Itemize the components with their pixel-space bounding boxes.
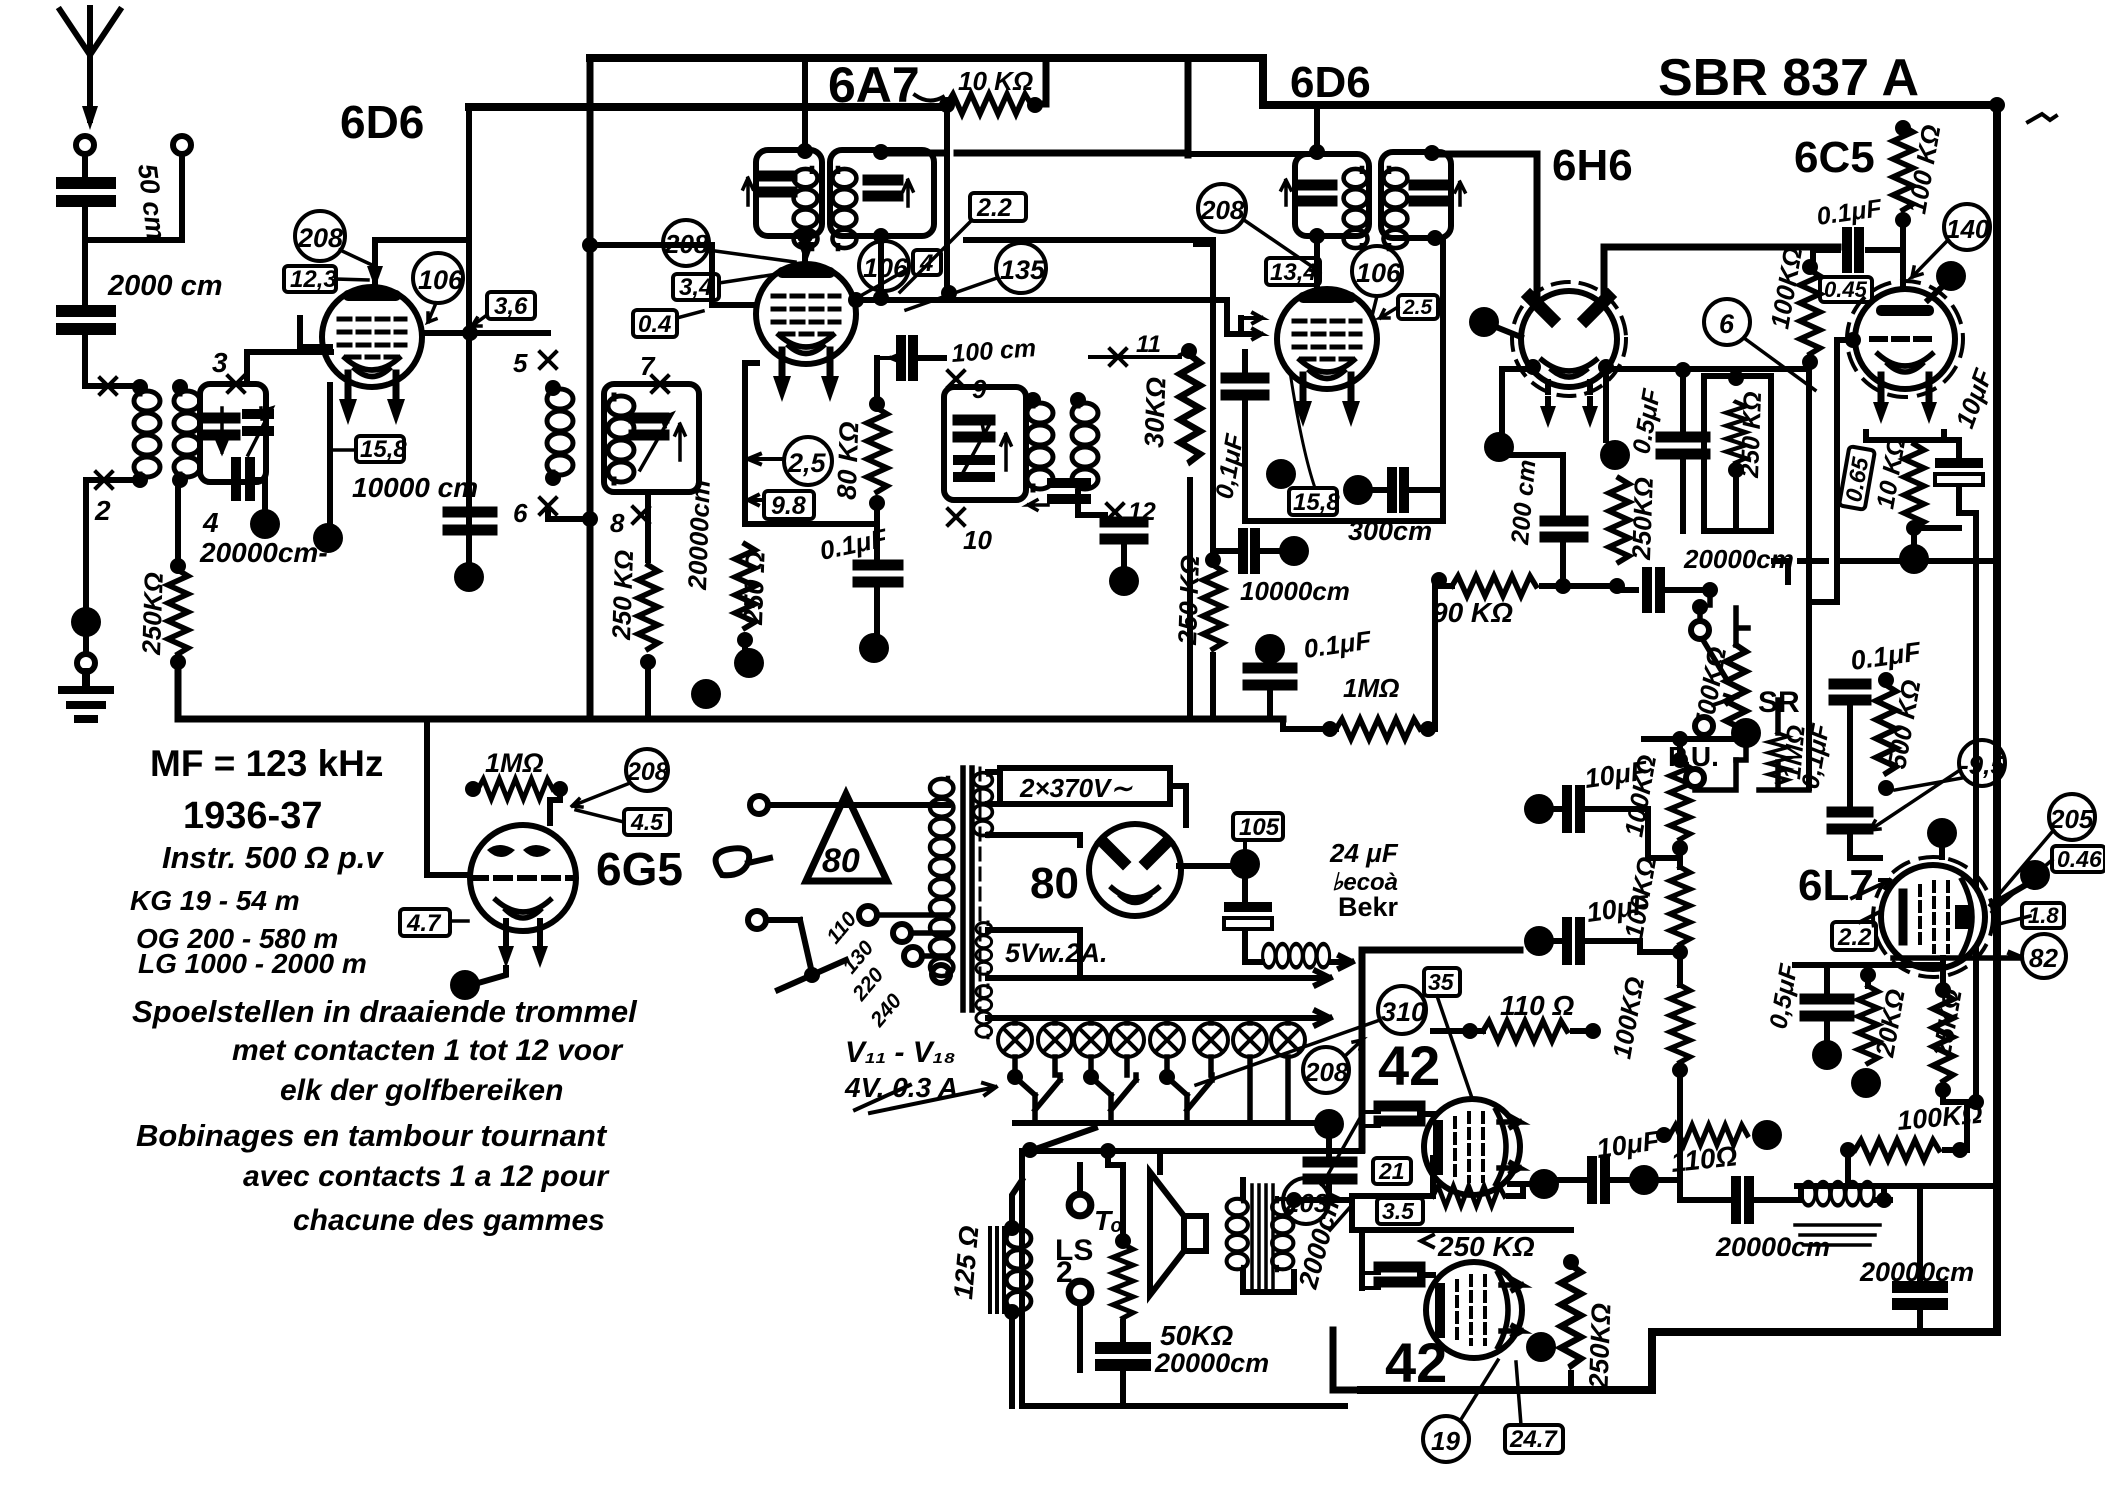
- svg-text:310: 310: [1381, 997, 1426, 1027]
- contact X2: [96, 472, 112, 488]
- svg-text:2×370V∼: 2×370V∼: [1019, 773, 1133, 803]
- pointer: [1460, 1360, 1498, 1421]
- 0.1uF cap lower: [1832, 812, 1868, 829]
- svg-text:20000cm: 20000cm: [1154, 1348, 1269, 1378]
- svg-text:20000cm: 20000cm: [1715, 1232, 1830, 1262]
- node: [640, 654, 656, 670]
- capacitor 0.1uF: [858, 565, 898, 582]
- junction blob: [1899, 544, 1929, 574]
- pointer: [330, 448, 356, 452]
- node: [545, 470, 561, 486]
- cathode arrows already in tube; cathode left wire: [742, 363, 748, 524]
- svg-text:chacune des gammes: chacune des gammes: [293, 1204, 605, 1237]
- pilot lamps: [998, 1023, 1032, 1057]
- AVC resistor 250K wire: [175, 480, 181, 565]
- cap: [634, 418, 664, 435]
- squiggle: [915, 95, 943, 101]
- svg-text:24.7: 24.7: [1509, 1426, 1558, 1453]
- resistor 100KOhm b: [1670, 867, 1690, 944]
- boxed 105: [1233, 813, 1283, 841]
- resistor 1MOhm vertical: [1768, 733, 1788, 783]
- heater lines: [988, 930, 1330, 985]
- svg-text:6L7: 6L7: [1798, 861, 1874, 910]
- svg-text:82: 82: [2029, 943, 2058, 973]
- grid cap wire: [375, 240, 469, 290]
- svg-text:6H6: 6H6: [1552, 141, 1633, 190]
- secondary 4V coil: [976, 985, 992, 1038]
- junction blob: [1266, 459, 1296, 489]
- trimmer arrow: [640, 414, 672, 470]
- plate wire right: [1604, 247, 1838, 300]
- coil 20000cm: [1802, 1182, 1874, 1205]
- node: [848, 292, 864, 308]
- svg-text:6D6: 6D6: [340, 96, 424, 148]
- wire: [645, 492, 651, 560]
- wires around pot: [1736, 608, 1748, 645]
- core: [963, 768, 972, 1010]
- svg-text:3.5: 3.5: [1382, 1198, 1415, 1224]
- svg-text:5: 5: [513, 348, 528, 378]
- antenna coil L2: [174, 390, 200, 478]
- boxed 15,8: [356, 436, 407, 463]
- boxed 4.7: [400, 909, 450, 937]
- left loop: [1022, 1151, 1345, 1406]
- node: [172, 472, 188, 488]
- node: [1181, 343, 1197, 359]
- cap 10000cm: [1213, 548, 1237, 554]
- box with 250K: [1704, 376, 1771, 531]
- circled 208: [1303, 1047, 1349, 1093]
- wire: [1078, 492, 1105, 515]
- cap: [1300, 185, 1332, 201]
- resistor 1MOhm: [465, 781, 481, 797]
- junction blob: [1230, 849, 1260, 879]
- node: [462, 325, 478, 341]
- circled 205: [2049, 794, 2095, 840]
- switch: [1692, 599, 1708, 615]
- resistor 250KOhm in box: [1726, 402, 1746, 462]
- svg-text:250 KΩ: 250 KΩ: [1172, 555, 1205, 647]
- cap 20000cm: [1120, 1322, 1126, 1342]
- boxed 0,4: [633, 310, 677, 338]
- right border: [1993, 105, 2001, 1324]
- svg-text:42: 42: [1385, 1331, 1447, 1394]
- svg-text:6G5: 6G5: [596, 843, 683, 895]
- cap below coil: [1052, 483, 1086, 499]
- svg-text:135: 135: [1000, 255, 1046, 285]
- svg-text:205: 205: [2049, 804, 2094, 834]
- arrow: [1281, 180, 1291, 205]
- arrow up: [1001, 434, 1011, 470]
- AVC dashed line to right: [1800, 558, 1862, 564]
- node: [1070, 392, 1086, 408]
- junction blob: [313, 523, 343, 553]
- circled 6: [1704, 299, 1750, 345]
- junction blob: [1279, 536, 1309, 566]
- contact X6: [540, 498, 556, 514]
- osc box right: [830, 150, 934, 236]
- lamp top leads: [1015, 1018, 1288, 1023]
- wire: [1542, 583, 1619, 589]
- svg-text:1936-37: 1936-37: [183, 795, 322, 837]
- wire: [874, 588, 880, 632]
- wire: [82, 154, 88, 177]
- IF box left: [1295, 154, 1369, 236]
- svg-text:80: 80: [1030, 859, 1079, 908]
- svg-text:2000 cm: 2000 cm: [107, 270, 223, 302]
- elbow: [1774, 561, 1788, 582]
- lamp chain: [1015, 1057, 1288, 1123]
- grid blob: [1927, 818, 1957, 848]
- 90K line: [1435, 583, 1452, 589]
- resistor 250K below 6H6: [1609, 478, 1629, 562]
- switch lever: [778, 960, 846, 990]
- boxed 2.2: [1832, 922, 1876, 951]
- screen box left wire: [1196, 241, 1213, 247]
- grid arrows into tube: [1241, 313, 1262, 339]
- wire right box bottom to plate line: [878, 236, 884, 300]
- grid blob: [1936, 261, 1966, 291]
- 10uF cap no2: [1524, 926, 1554, 956]
- wire top: [802, 58, 808, 151]
- terminal: [77, 654, 95, 672]
- svg-text:6: 6: [513, 498, 528, 528]
- wire grid jog: [550, 789, 560, 823]
- circled 19: [1423, 1416, 1469, 1462]
- svg-text:Tₒ: Tₒ: [1094, 1205, 1123, 1236]
- osc coil B: [1072, 402, 1098, 490]
- cathode network: [1866, 432, 1959, 440]
- tube 6H6: [1512, 282, 1626, 428]
- pot 500K: [1726, 645, 1746, 737]
- contact X12: [1107, 504, 1123, 520]
- svg-text:3,6: 3,6: [494, 293, 528, 320]
- resistor 110 Ohm low: [1656, 1127, 1672, 1143]
- AVC line: [966, 240, 1213, 560]
- svg-text:12,3: 12,3: [290, 266, 337, 293]
- line: [1022, 1148, 1362, 1154]
- node: [873, 144, 889, 160]
- pointers: [1990, 832, 2052, 925]
- svg-text:140: 140: [1946, 214, 1990, 244]
- circled 140: [1944, 204, 1990, 250]
- arrow left: [1028, 500, 1048, 510]
- arrow: [855, 1083, 996, 1113]
- svg-text:10000 cm: 10000 cm: [352, 472, 478, 503]
- boxed 21: [1373, 1158, 1411, 1184]
- arrow: [903, 180, 913, 206]
- svg-text:10: 10: [963, 525, 992, 555]
- svg-text:35: 35: [1428, 969, 1455, 995]
- grid hook wire: [247, 318, 331, 381]
- tube 42 no2: [1426, 1262, 1522, 1358]
- boxed 13,4: [1266, 258, 1320, 286]
- circled 208: [1198, 184, 1246, 232]
- elco 24uF: [1242, 878, 1248, 900]
- circled 135: [996, 243, 1046, 293]
- boxed 9.8: [764, 491, 814, 520]
- boxed 2.2: [970, 193, 1026, 222]
- bottom network line: [1797, 1183, 1997, 1189]
- node: [170, 558, 186, 574]
- choke: [1245, 932, 1262, 962]
- svg-text:3,4: 3,4: [679, 274, 712, 301]
- svg-text:90 KΩ: 90 KΩ: [1432, 597, 1513, 628]
- svg-text:1MΩ: 1MΩ: [1343, 673, 1399, 703]
- trimmer capacitor: [205, 418, 235, 435]
- pointer with arrow: [748, 454, 784, 464]
- svg-text:6D6: 6D6: [1290, 58, 1371, 107]
- screen feed vertical: [1185, 58, 1192, 155]
- tube 6C5: [1847, 281, 1963, 424]
- antenna symbol: [60, 8, 120, 130]
- boxed 4.5: [624, 809, 670, 835]
- output transformer: [1227, 1198, 1248, 1270]
- svg-text:250 Ω: 250 Ω: [738, 551, 771, 627]
- node: [941, 285, 957, 301]
- boxed 12,3: [284, 266, 337, 293]
- contact X3: [228, 376, 244, 392]
- svg-text:0.4: 0.4: [638, 311, 671, 338]
- boxed 15,8: [1289, 488, 1340, 516]
- wire grid: [1314, 236, 1320, 292]
- wire to bottom bus: [178, 660, 1283, 719]
- cathode bottom loop: [745, 503, 877, 558]
- svg-text:300cm: 300cm: [1348, 516, 1432, 546]
- ground: [62, 672, 110, 719]
- boxed 0.45: [2052, 846, 2105, 872]
- plate line 6A7: [856, 300, 1258, 334]
- capacitor 50cm: [62, 183, 110, 201]
- svg-text:2,5: 2,5: [787, 448, 827, 478]
- wire: [742, 640, 748, 655]
- svg-text:250KΩ: 250KΩ: [136, 572, 169, 656]
- capacitor below box: [236, 462, 250, 496]
- svg-text:11: 11: [1136, 331, 1161, 358]
- svg-text:30KΩ: 30KΩ: [1139, 377, 1171, 449]
- wire: [548, 512, 588, 519]
- capacitor on AVC line: [448, 512, 492, 530]
- node: [1427, 230, 1443, 246]
- junction blob: [454, 562, 484, 592]
- tube 6G5: [470, 825, 576, 968]
- node: [172, 379, 188, 395]
- junction blob: [734, 648, 764, 678]
- wire: [1035, 58, 1046, 104]
- 100K resistor column: [1644, 736, 1732, 742]
- pointer: [428, 303, 436, 322]
- pointer: [472, 315, 487, 326]
- top link: [1795, 962, 1943, 968]
- node: [1205, 552, 1221, 568]
- label 250KOhm arrow: [1421, 1235, 1433, 1247]
- resistor 30KOhm: [1180, 355, 1200, 462]
- tube 42 no1: [1424, 1099, 1520, 1195]
- svg-text:KG 19 - 54 m: KG 19 - 54 m: [130, 885, 300, 916]
- svg-text:15,8: 15,8: [1293, 489, 1340, 516]
- svg-text:4.5: 4.5: [630, 809, 664, 835]
- svg-text:V₁₁ - V₁₈: V₁₁ - V₁₈: [845, 1036, 956, 1069]
- circled 2,5: [784, 437, 832, 485]
- tube GL7: [1873, 857, 1993, 977]
- node: [1309, 228, 1325, 244]
- bottom bus amp: [1361, 1332, 1997, 1390]
- svg-text:110 Ω: 110 Ω: [1500, 990, 1574, 1021]
- circled 310: [1378, 986, 1426, 1034]
- boxed 3,4: [673, 274, 719, 301]
- svg-text:42: 42: [1378, 1034, 1440, 1097]
- junction blob: [71, 607, 101, 637]
- boxed 0.65 rotated: [1839, 446, 1875, 510]
- boxed 0.45 top: [1820, 277, 1872, 302]
- cap in right box: [868, 180, 898, 196]
- 80K resistor top wire: [874, 358, 880, 404]
- tube 6D6 V1: [322, 287, 422, 425]
- svg-text:6: 6: [1719, 309, 1735, 339]
- 10uF cap no3: [1556, 1177, 1585, 1183]
- check mark top right: [2028, 114, 2056, 122]
- band switch box 2: [944, 387, 1026, 500]
- wire: [1504, 369, 1606, 515]
- coil: [1344, 168, 1368, 249]
- mains taps: [859, 906, 877, 924]
- arrow: [743, 178, 753, 205]
- node: [1025, 392, 1041, 408]
- wire: [85, 154, 182, 240]
- wire right box to screen line: [878, 152, 884, 153]
- circled 82: [2022, 934, 2066, 978]
- junction blob: [1109, 566, 1139, 596]
- node: [797, 143, 813, 159]
- boxed 1.8: [2022, 903, 2064, 928]
- resistor 250KOhm: [168, 570, 188, 654]
- boxed 24.7: [1505, 1425, 1563, 1453]
- svg-text:208: 208: [1304, 1057, 1349, 1087]
- svg-text:250 KΩ: 250 KΩ: [606, 550, 639, 642]
- 0.5uF cap: [1675, 362, 1691, 378]
- 10uF cap no1: [1524, 794, 1554, 824]
- svg-text:10000cm: 10000cm: [1240, 576, 1350, 606]
- primary wires: [768, 805, 948, 920]
- circled 106: [859, 241, 909, 291]
- B+ bus left section: [469, 103, 947, 111]
- junction blob: [1314, 1109, 1344, 1139]
- node: [132, 379, 148, 395]
- pointer: [1744, 338, 1815, 390]
- pointer: [1244, 220, 1320, 272]
- node: [873, 290, 889, 306]
- resistor 80KOhm: [867, 408, 887, 492]
- node: [132, 472, 148, 488]
- trimmer cap: [958, 420, 990, 437]
- cap 0.1uF: [1813, 247, 1903, 253]
- fuse curve: [716, 848, 770, 875]
- svg-text:208: 208: [664, 229, 709, 259]
- node: [869, 495, 885, 511]
- svg-text:21: 21: [1378, 1158, 1405, 1184]
- junction blob: [1600, 440, 1630, 470]
- svg-text:Bobinages en tambour tournant: Bobinages en tambour tournant: [136, 1118, 608, 1153]
- svg-text:Bekr: Bekr: [1338, 892, 1399, 922]
- primary coil: [930, 778, 953, 877]
- top right blob: [2020, 860, 2050, 890]
- tube 6D6 V2: [1277, 289, 1377, 427]
- cap 20000cm right: [1917, 1186, 1923, 1281]
- boxed 3,6: [487, 292, 535, 320]
- svg-text:208: 208: [1200, 195, 1245, 225]
- node: [797, 228, 813, 244]
- svg-text:20000cm-: 20000cm-: [199, 537, 328, 568]
- svg-text:6C5: 6C5: [1794, 133, 1875, 182]
- field coil 125 Ohm: [990, 1228, 1004, 1312]
- pointer: [677, 311, 703, 318]
- svg-text:105: 105: [1239, 814, 1280, 841]
- node: [939, 97, 955, 113]
- resistor 500KOhm right: [1878, 672, 1894, 688]
- cap 2000cm: [1326, 1140, 1332, 1156]
- triangle 80: [806, 794, 887, 881]
- node: [1027, 97, 1043, 113]
- svg-text:4.7: 4.7: [406, 910, 442, 937]
- coil in right box: [832, 168, 856, 249]
- wire: [83, 636, 89, 654]
- wire from bus: [427, 719, 470, 875]
- pointer: [1516, 1362, 1521, 1425]
- junction blob: [1529, 1169, 1559, 1199]
- wire: [1900, 216, 1906, 284]
- IF box right: [1381, 152, 1451, 238]
- rectifier 80: [1089, 824, 1181, 916]
- wire: [252, 480, 265, 508]
- circled 208: [295, 211, 345, 261]
- 100cm coupling cap: [877, 353, 903, 363]
- secondary 5V coil: [976, 922, 992, 975]
- node: [1309, 144, 1325, 160]
- svg-text:2.2: 2.2: [1837, 924, 1872, 951]
- elco cap: [1956, 440, 1962, 462]
- pointer arrows from 6L7: [1852, 880, 1893, 922]
- junction blob: [1484, 432, 1514, 462]
- pointer: [450, 919, 468, 923]
- node: [869, 396, 885, 412]
- arrow up: [675, 424, 685, 460]
- circled 106: [413, 253, 464, 303]
- contact X1: [100, 378, 116, 394]
- svg-text:19: 19: [1431, 1426, 1460, 1456]
- resistor 250KOhm second: [638, 565, 658, 649]
- HT box 2x370V: [1000, 768, 1170, 804]
- antenna coil L1: [134, 390, 160, 478]
- cathode wire: [327, 385, 333, 536]
- pointers: [1870, 770, 1962, 830]
- svg-text:2.5: 2.5: [1402, 296, 1433, 319]
- pointer: [1372, 296, 1398, 318]
- boxed 4: [913, 250, 941, 277]
- svg-text:250 KΩ: 250 KΩ: [1736, 391, 1767, 479]
- svg-text:2: 2: [1056, 1256, 1073, 1289]
- wiper arrow: [1713, 695, 1734, 705]
- 0.1uF cap left: [1226, 378, 1264, 395]
- contact X5: [540, 352, 556, 368]
- resistor 10KOhm: [947, 94, 1031, 114]
- pointer: [1912, 240, 1948, 277]
- pointer: [1437, 996, 1472, 1098]
- osc coil: [547, 388, 573, 476]
- 6A7 grid line: [588, 245, 757, 305]
- terminal A1: [76, 136, 94, 154]
- junction blob: [859, 633, 889, 663]
- resistor 1MOhm: [1322, 721, 1338, 737]
